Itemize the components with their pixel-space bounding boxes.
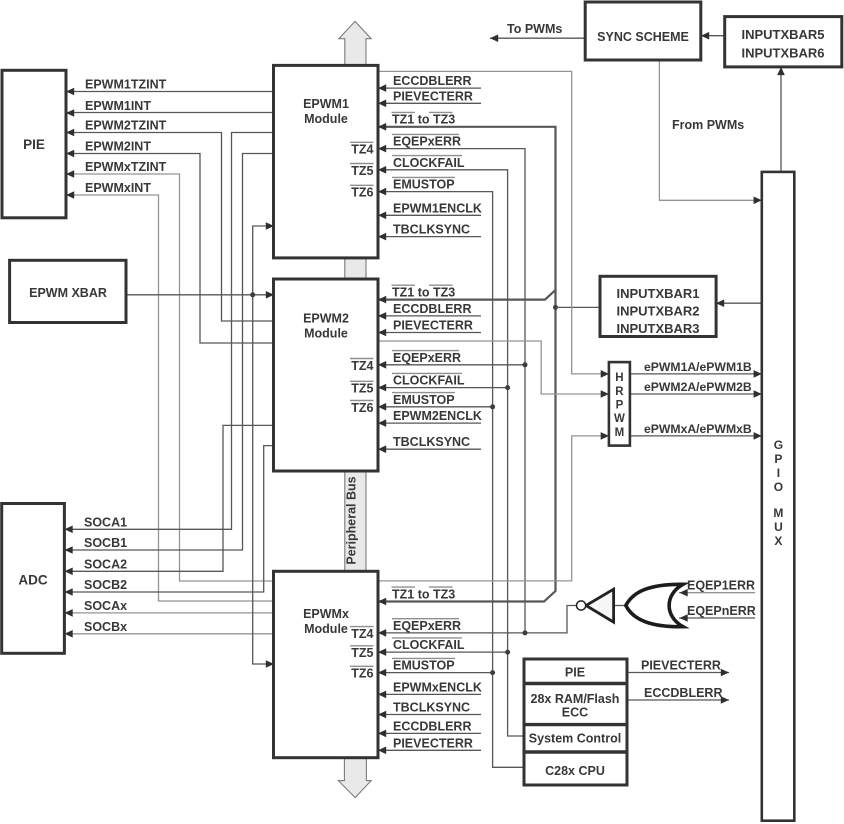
wire PIEVECTERR output from PIE block (627, 672, 729, 674)
wire EPWM1 output to HRPWM (gray) (378, 71, 609, 374)
junction dot TZ1-TZ3 / INPUTXBAR1-3 (553, 305, 558, 310)
svg-text:TBCLKSYNC: TBCLKSYNC (393, 223, 470, 237)
block EPWM1 Module (274, 65, 379, 258)
svg-text:EMUSTOP: EMUSTOP (393, 178, 455, 192)
arrowhead into EPWM1 right edge at y=88.1 (378, 84, 386, 92)
arrowhead into EPWMx right edge at y=750.3 (378, 747, 386, 755)
arrowhead into EPWM1 right edge at y=169.8 (378, 166, 386, 174)
svg-text:SOCA2: SOCA2 (84, 557, 127, 571)
arrowhead into EPWMx right edge at y=652.1 (378, 648, 386, 656)
wire CLOCKFAIL to EPWMx (378, 651, 508, 653)
wire EPWM1ENCLK stub (378, 214, 481, 216)
arrowhead into EPWM1 right edge at y=126.8 (378, 123, 386, 131)
wire To PWMs from SYNC SCHEME (490, 37, 585, 39)
OR gate (mirrored, output left) (626, 584, 683, 626)
junction dot EMUSTOP EPWM2 (490, 404, 495, 409)
peripheral bus shaft segment between EPWM2 and EPWMx (345, 469, 366, 573)
svg-text:PIEVECTERR: PIEVECTERR (393, 736, 473, 750)
arrowhead into ADC at y=612.9 (65, 609, 73, 617)
svg-text:TZ5: TZ5 (351, 646, 373, 660)
svg-text:From PWMs: From PWMs (672, 118, 744, 132)
arrowhead To PWMs (490, 34, 498, 42)
wire ePWM2A/ePWM2B to GPIO MUX (630, 393, 762, 395)
peripheral bus down arrow (338, 756, 371, 798)
svg-text:O: O (774, 480, 783, 494)
svg-text:EMUSTOP: EMUSTOP (393, 393, 455, 407)
arrowhead into ADC at y=550 (65, 546, 73, 554)
arrowhead into INPUTXBAR1-3 (716, 299, 724, 307)
svg-text:TZ6: TZ6 (351, 667, 373, 681)
wire PIEVECTERR stub EPWM1 (378, 102, 481, 104)
svg-text:CLOCKFAIL: CLOCKFAIL (393, 638, 465, 652)
block GPIO MUX (762, 172, 795, 821)
svg-text:EPWMxENCLK: EPWMxENCLK (393, 680, 482, 694)
block EPWM XBAR (10, 260, 126, 322)
svg-text:H: H (615, 372, 623, 384)
svg-text:PIE: PIE (23, 137, 45, 152)
svg-text:TZ6: TZ6 (351, 401, 373, 415)
wire ECCDBLERR output from ECC block (627, 699, 729, 701)
svg-text:EPWM XBAR: EPWM XBAR (29, 286, 107, 300)
junction dot EPWM XBAR branch (250, 292, 255, 297)
svg-text:ECCDBLERR: ECCDBLERR (644, 686, 722, 700)
svg-text:CLOCKFAIL: CLOCKFAIL (393, 156, 465, 170)
arrowhead into EPWM2 right edge at y=423.1 (378, 419, 386, 427)
block ADC (2, 504, 65, 654)
svg-text:W: W (614, 413, 625, 425)
svg-text:ePWM1A/ePWM1B: ePWM1A/ePWM1B (644, 360, 752, 374)
svg-text:P: P (616, 400, 624, 412)
svg-text:PIEVECTERR: PIEVECTERR (393, 89, 473, 103)
svg-text:ePWM2A/ePWM2B: ePWM2A/ePWM2B (644, 380, 752, 394)
svg-text:EMUSTOP: EMUSTOP (393, 659, 455, 673)
wire EPWM1TZINT: EPWM1 to PIE (66, 91, 274, 93)
svg-text:I: I (777, 466, 780, 480)
wire TZ1-TZ3 trunk from GPIO MUX column: EPWM1 input, down to EPWMx input (378, 127, 556, 602)
svg-text:TZ4: TZ4 (351, 627, 373, 641)
wire EPWM XBAR to EPWM2 (126, 294, 274, 296)
peripheral bus shaft segment between EPWM1 and EPWM2 (345, 256, 366, 281)
svg-text:EPWM1: EPWM1 (303, 97, 349, 111)
peripheral bus up arrow (339, 21, 371, 66)
svg-text:ADC: ADC (18, 573, 47, 588)
svg-text:ECCDBLERR: ECCDBLERR (393, 719, 471, 733)
svg-text:R: R (615, 386, 624, 398)
svg-text:PIEVECTERR: PIEVECTERR (393, 319, 473, 333)
wire PIEVECTERR stub EPWMx (378, 749, 481, 751)
wire EPWM1INT: EPWM1 to PIE (66, 112, 274, 114)
arrowhead PIEVECTERR output (721, 669, 729, 677)
arrowhead ePWM2A/B into GPIO MUX (754, 390, 762, 398)
svg-text:SOCA1: SOCA1 (84, 515, 127, 529)
arrowhead EPWM XBAR into EPWM2 (266, 291, 274, 299)
svg-text:M: M (615, 427, 625, 439)
arrowhead into ADC at y=529.3 (65, 526, 73, 534)
block SYNC SCHEME (585, 2, 701, 60)
svg-text:EQEPxERR: EQEPxERR (393, 135, 461, 149)
arrowhead into PIE at y=174 (66, 170, 74, 178)
svg-text:SYNC SCHEME: SYNC SCHEME (597, 30, 689, 44)
arrowhead into PIE at y=132.5 (66, 129, 74, 137)
arrowhead into PIE at y=91.5 (66, 88, 74, 96)
arrowhead into PIE at y=195 (66, 191, 74, 199)
arrowhead into SYNC SCHEME (701, 32, 709, 40)
svg-text:INPUTXBAR1: INPUTXBAR1 (616, 286, 699, 301)
arrowhead ECCDBLERR output (721, 696, 729, 704)
svg-text:ECCDBLERR: ECCDBLERR (393, 74, 471, 88)
wire ePWM1A/ePWM1B to GPIO MUX (630, 373, 762, 375)
wire ECCDBLERR stub EPWM2 (378, 315, 481, 317)
svg-text:28x RAM/Flash: 28x RAM/Flash (531, 692, 620, 706)
wire SOCB1: EPWM1 to ADC (66, 154, 274, 551)
svg-text:TZ6: TZ6 (351, 186, 373, 200)
wire EQEPxERR vertical net to EPWM1 (378, 149, 525, 633)
svg-text:EPWM1ENCLK: EPWM1ENCLK (393, 201, 482, 215)
junction dot CLOCKFAIL EPWM2 (505, 385, 510, 390)
wire ECCDBLERR stub EPWMx (378, 732, 481, 734)
arrowhead ePWM1A/B into GPIO MUX (754, 370, 762, 378)
wire EPWM2ENCLK stub (378, 422, 481, 424)
wire TZ1-TZ3 branch to EPWM2 with diagonal jog (378, 290, 556, 300)
arrowhead into EPWM1 right edge at y=215.3 (378, 212, 386, 220)
arrowhead into ADC at y=592 (65, 588, 73, 596)
svg-text:EQEPxERR: EQEPxERR (393, 351, 461, 365)
svg-text:TZ1 to TZ3: TZ1 to TZ3 (392, 285, 455, 299)
arrowhead EQEPnERR into OR gate (680, 614, 688, 622)
svg-text:TBCLKSYNC: TBCLKSYNC (393, 435, 470, 449)
wire EPWMxTZINT: EPWMx to PIE (gray) (66, 174, 274, 581)
svg-text:EQEPxERR: EQEPxERR (393, 619, 461, 633)
overlines for active-low signal labels (392, 133, 459, 135)
svg-text:X: X (774, 534, 782, 548)
svg-text:Module: Module (304, 327, 348, 341)
svg-text:TZ5: TZ5 (351, 164, 373, 178)
wire INPUTXBAR5/6 to SYNC SCHEME (701, 35, 725, 37)
NOT gate (inverter) (586, 589, 614, 622)
wire TBCLKSYNC stub EPWM1 (378, 236, 481, 238)
block CPU stack outer (524, 659, 627, 785)
junction dot EQEPxERR EPWM2 (523, 362, 528, 367)
wire EQEPnERR into OR gate (679, 617, 755, 619)
wire EMUSTOP net from C28x CPU (378, 192, 524, 768)
svg-text:PIE: PIE (565, 666, 585, 680)
arrowhead into EPWM2 right edge at y=364.8 (378, 361, 386, 369)
junction dot CLOCKFAIL EPWMx (505, 650, 510, 655)
svg-text:EQEP1ERR: EQEP1ERR (687, 579, 755, 593)
arrowhead into ADC at y=571.3 (65, 568, 73, 576)
wire SOCB2: EPWM2 to ADC (66, 446, 274, 592)
block PIE (2, 70, 66, 218)
wire EPWMxENCLK stub (378, 693, 481, 695)
arrowhead into HRPWM input 3 (601, 432, 609, 440)
wire EQEPxERR to EPWMx from NOT gate output (378, 606, 576, 633)
wire EPWM2TZINT: EPWM2 to PIE (66, 133, 274, 322)
svg-text:ECCDBLERR: ECCDBLERR (393, 302, 471, 316)
wire SYNC SCHEME to GPIO MUX From PWMs (gray) (659, 60, 761, 200)
wire EMUSTOP to EPWM2 (378, 406, 493, 408)
arrowhead into EPWM1 right edge at y=148.6 (378, 145, 386, 153)
svg-text:C28x CPU: C28x CPU (545, 764, 605, 778)
junction dot EQEPxERR EPWMx (523, 630, 528, 635)
wire SOCA1: EPWM1 to ADC (66, 133, 274, 530)
svg-text:EPWM2INT: EPWM2INT (85, 140, 151, 154)
svg-text:SOCAx: SOCAx (84, 599, 127, 613)
arrowhead into EPWM2 right edge at y=449.2 (378, 445, 386, 453)
svg-text:ECC: ECC (562, 706, 588, 720)
svg-text:PIEVECTERR: PIEVECTERR (641, 659, 721, 673)
svg-text:G: G (774, 438, 783, 452)
svg-text:CLOCKFAIL: CLOCKFAIL (393, 374, 465, 388)
wire EPWM XBAR branch to EPWMx (253, 295, 274, 664)
svg-text:TBCLKSYNC: TBCLKSYNC (393, 701, 470, 715)
svg-text:Peripheral Bus: Peripheral Bus (345, 476, 359, 564)
arrowhead into EPWM2 right edge at y=387.6 (378, 384, 386, 392)
wire EQEPxERR to EPWM2 (378, 364, 525, 366)
svg-text:P: P (774, 452, 782, 466)
svg-text:INPUTXBAR2: INPUTXBAR2 (616, 304, 699, 319)
arrowhead From PWMs into GPIO MUX (754, 197, 762, 205)
arrowhead EPWM XBAR into EPWM1 (266, 222, 274, 230)
svg-text:EPWM2: EPWM2 (303, 312, 349, 326)
block EPWM2 Module (274, 279, 379, 471)
svg-text:Module: Module (304, 112, 348, 126)
wire SOCBx: EPWMx to ADC (gray) (66, 633, 274, 635)
svg-text:INPUTXBAR3: INPUTXBAR3 (616, 321, 699, 336)
wire ECCDBLERR stub EPWM1 (378, 87, 481, 89)
arrowhead into EPWMx right edge at y=714.5 (378, 711, 386, 719)
wire EPWMx output to HRPWM (gray) (378, 436, 609, 581)
svg-text:INPUTXBAR6: INPUTXBAR6 (741, 46, 824, 61)
arrowhead into EPWMx right edge at y=733.4 (378, 730, 386, 738)
wire TBCLKSYNC stub EPWM2 (378, 448, 481, 450)
svg-text:SOCBx: SOCBx (84, 620, 127, 634)
arrowhead into PIE at y=153.5 (66, 150, 74, 158)
wire PIEVECTERR stub EPWM2 (378, 332, 481, 334)
svg-text:EQEPnERR: EQEPnERR (687, 604, 756, 618)
svg-text:M: M (773, 506, 783, 520)
arrowhead into EPWMx right edge at y=601.5 (378, 598, 386, 606)
arrowhead ePWMxA/B into GPIO MUX (754, 432, 762, 440)
wire CLOCKFAIL net from System Control (378, 170, 524, 736)
arrowhead into ADC at y=633.8 (65, 630, 73, 638)
arrowhead into EPWM1 right edge at y=103.3 (378, 100, 386, 108)
arrowhead into EPWM2 right edge at y=332.5 (378, 329, 386, 337)
wire EMUSTOP to EPWMx (378, 672, 493, 674)
arrowhead up into INPUTXBAR5/6 (777, 67, 785, 75)
arrowhead into HRPWM input 2 (601, 390, 609, 398)
wire CLOCKFAIL to EPWM2 (378, 387, 508, 389)
svg-text:EPWMx: EPWMx (303, 607, 349, 621)
wire ePWMxA/ePWMxB to GPIO MUX (630, 435, 762, 437)
svg-text:EPWM1TZINT: EPWM1TZINT (85, 78, 167, 92)
block INPUTXBAR5 INPUTXBAR6 (725, 17, 842, 67)
wire GPIO MUX to INPUTXBAR5/6 (780, 67, 782, 172)
arrowhead into EPWMx right edge at y=672.6 (378, 669, 386, 677)
svg-text:SOCB1: SOCB1 (84, 536, 127, 550)
svg-text:EPWMxINT: EPWMxINT (85, 181, 151, 195)
svg-text:TZ5: TZ5 (351, 382, 373, 396)
svg-text:INPUTXBAR5: INPUTXBAR5 (741, 27, 824, 42)
arrowhead EQEP1ERR into OR gate (680, 589, 688, 597)
wire GPIO MUX to INPUTXBAR1-3 (716, 302, 762, 304)
junction dot EMUSTOP EPWMx (490, 670, 495, 675)
arrowhead into EPWM1 right edge at y=236.6 (378, 233, 386, 241)
wire EPWM XBAR branch to EPWM1 (253, 226, 274, 295)
svg-text:To PWMs: To PWMs (507, 22, 562, 36)
svg-text:TZ4: TZ4 (351, 143, 373, 157)
wire TBCLKSYNC stub EPWMx (378, 714, 481, 716)
arrowhead into EPWMx right edge at y=632.9 (378, 629, 386, 637)
svg-text:TZ1 to TZ3: TZ1 to TZ3 (392, 587, 455, 601)
wire INPUTXBAR1-3 to TZ1-TZ3 trunk (556, 306, 601, 308)
svg-text:EPWM1INT: EPWM1INT (85, 99, 151, 113)
wire EPWMxINT: EPWMx to PIE (gray) (66, 195, 274, 601)
wire OR gate output to NOT gate (614, 605, 626, 607)
wire EPWM2 output to HRPWM (gray) (378, 341, 609, 394)
svg-text:EPWMxTZINT: EPWMxTZINT (85, 160, 167, 174)
block EPWMx Module (274, 571, 379, 757)
wire SOCAx: EPWMx to ADC (gray) (66, 612, 274, 614)
arrowhead into EPWM1 right edge at y=191.6 (378, 188, 386, 196)
svg-text:SOCB2: SOCB2 (84, 578, 127, 592)
block INPUTXBAR1 INPUTXBAR2 INPUTXBAR3 (600, 276, 716, 336)
svg-text:TZ1 to TZ3: TZ1 to TZ3 (392, 113, 455, 127)
arrowhead into EPWM2 right edge at y=315.9 (378, 312, 386, 320)
svg-text:EPWM2ENCLK: EPWM2ENCLK (393, 409, 482, 423)
wire EQEP1ERR into OR gate (gray) (679, 592, 755, 594)
arrowhead into EPWM2 right edge at y=299.6 (378, 296, 386, 304)
wire SOCA2: EPWM2 to ADC (66, 425, 274, 571)
arrowhead into HRPWM input 1 (601, 370, 609, 378)
arrowhead into PIE at y=113 (66, 109, 74, 117)
svg-text:Module: Module (304, 622, 348, 636)
arrowhead EPWM XBAR into EPWMx (266, 660, 274, 668)
svg-text:ePWMxA/ePWMxB: ePWMxA/ePWMxB (644, 422, 752, 436)
svg-text:U: U (774, 520, 783, 534)
wire EPWM2INT: EPWM2 to PIE (66, 154, 274, 344)
svg-text:System Control: System Control (529, 732, 621, 746)
svg-text:TZ4: TZ4 (351, 359, 373, 373)
arrowhead into EPWM2 right edge at y=406.8 (378, 403, 386, 411)
arrowhead into EPWMx right edge at y=694.4 (378, 691, 386, 699)
svg-text:EPWM2TZINT: EPWM2TZINT (85, 119, 167, 133)
block HRPWM (609, 362, 630, 446)
